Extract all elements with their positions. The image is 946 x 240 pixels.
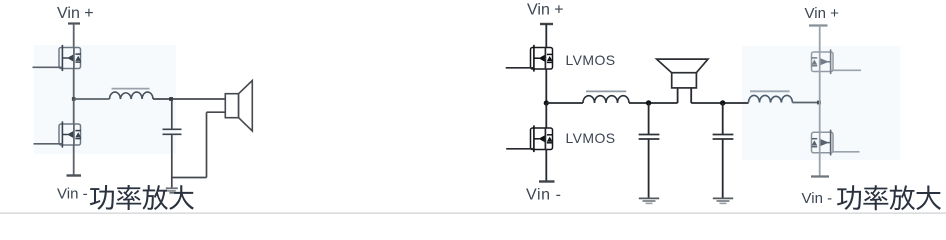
speaker LS2 (bridge load) <box>657 59 708 88</box>
Vin+ terminal bar (left) <box>68 22 80 24</box>
ground (left filter) <box>166 188 178 193</box>
inductor L3 <box>749 91 793 102</box>
wire Q4 gate lead <box>506 148 534 150</box>
transistor Q2 (low-side MOSFET, left) <box>59 121 81 147</box>
wire output node down to Q2 drain <box>73 99 75 124</box>
wire Q5 source to node D <box>819 72 821 103</box>
wire Q6 source to Vin- <box>819 153 821 177</box>
svg-text:LVMOS: LVMOS <box>566 52 616 68</box>
wire C1 bottom down <box>171 135 173 179</box>
wire output to filter inductor L1 <box>74 98 110 100</box>
highlight box left <box>34 45 176 154</box>
wire L1 to speaker node <box>153 98 225 100</box>
wire node B down to capacitor C2 <box>648 103 650 134</box>
wire Q4 source to Vin- <box>545 150 547 182</box>
wire speaker - stub <box>690 88 692 103</box>
wire Vin+ to Q5 drain <box>819 26 821 53</box>
svg-text:Vin -: Vin - <box>57 186 88 203</box>
capacitor C3 <box>713 135 734 140</box>
transistor Q6 (low-side MOSFET, right, mirrored) <box>812 130 834 156</box>
svg-text:Vin +: Vin + <box>57 5 94 22</box>
svg-text:Vin +: Vin + <box>527 2 564 19</box>
caption 功率放大 (left) <box>90 185 194 210</box>
wire node D to Q6 drain <box>819 103 821 133</box>
transistor Q5 (high-side MOSFET, right, mirrored) <box>812 49 834 74</box>
wire Q2 gate lead <box>34 143 63 145</box>
wire Vin+ to Q3 drain <box>545 24 547 48</box>
wire C3 to ground <box>722 140 724 199</box>
wire Q6 gate lead <box>831 151 860 153</box>
ground (C2) <box>639 198 659 203</box>
wire node A down to Q4 drain <box>545 103 547 128</box>
page bottom divider <box>0 212 946 214</box>
svg-text:Vin +: Vin + <box>805 5 840 22</box>
wire C2 to ground <box>648 140 650 199</box>
node C junction <box>720 100 725 105</box>
wire Vin+ to Q1 drain <box>73 24 75 48</box>
Vin+ terminal bar (middle) <box>540 23 553 25</box>
highlight box right <box>742 46 900 160</box>
wire speaker + stub <box>677 88 679 103</box>
wire node A to inductor L2 <box>546 102 583 104</box>
wire Q1 source to output node <box>73 69 75 100</box>
speaker LS1 (left) <box>225 81 252 132</box>
node junction at left bridge output <box>72 97 76 101</box>
wire Q1 gate lead <box>33 66 63 68</box>
node B junction <box>646 100 651 105</box>
node junction filter output <box>169 97 173 101</box>
capacitor C1 <box>163 129 182 134</box>
wire Q3 source to bridge node A <box>545 69 547 103</box>
wire riser to speaker - terminal <box>207 111 226 113</box>
capacitor C2 <box>639 135 660 140</box>
inductor L1 <box>110 89 154 99</box>
svg-text:Vin -: Vin - <box>802 190 833 207</box>
transistor Q3 LVMOS (high-side, middle) <box>531 45 553 72</box>
wire ground stub (left filter) <box>171 178 173 188</box>
inductor L2 <box>583 91 629 103</box>
caption 功率放大 (right) <box>837 185 941 210</box>
transistor Q1 (high-side MOSFET, left) <box>59 45 81 71</box>
wire node C down to capacitor C3 <box>722 103 724 134</box>
wire Q2 source to Vin- <box>73 145 75 176</box>
wire Q5 gate lead <box>831 69 861 71</box>
svg-text:LVMOS: LVMOS <box>566 130 616 146</box>
Vin- terminal bar (left) <box>67 174 82 176</box>
ground (C3) <box>713 198 733 203</box>
node D junction <box>817 101 821 105</box>
wire Q3 gate lead <box>506 67 534 69</box>
wire node down to capacitor C1 <box>171 99 173 129</box>
wire L3 to right leg node D <box>792 102 819 104</box>
Vin- terminal bar (right) <box>811 175 829 177</box>
wire L2 to node B <box>629 102 678 104</box>
Vin- terminal bar (middle) <box>539 180 555 182</box>
node A junction <box>544 100 549 105</box>
svg-text:Vin -: Vin - <box>526 187 562 204</box>
wire node B to node C <box>691 102 748 104</box>
transistor Q4 LVMOS (low-side, middle) <box>531 125 553 152</box>
Vin+ terminal bar (right) <box>809 24 828 26</box>
wire bottom run to speaker return riser <box>171 177 207 179</box>
wire speaker return riser <box>206 112 208 177</box>
